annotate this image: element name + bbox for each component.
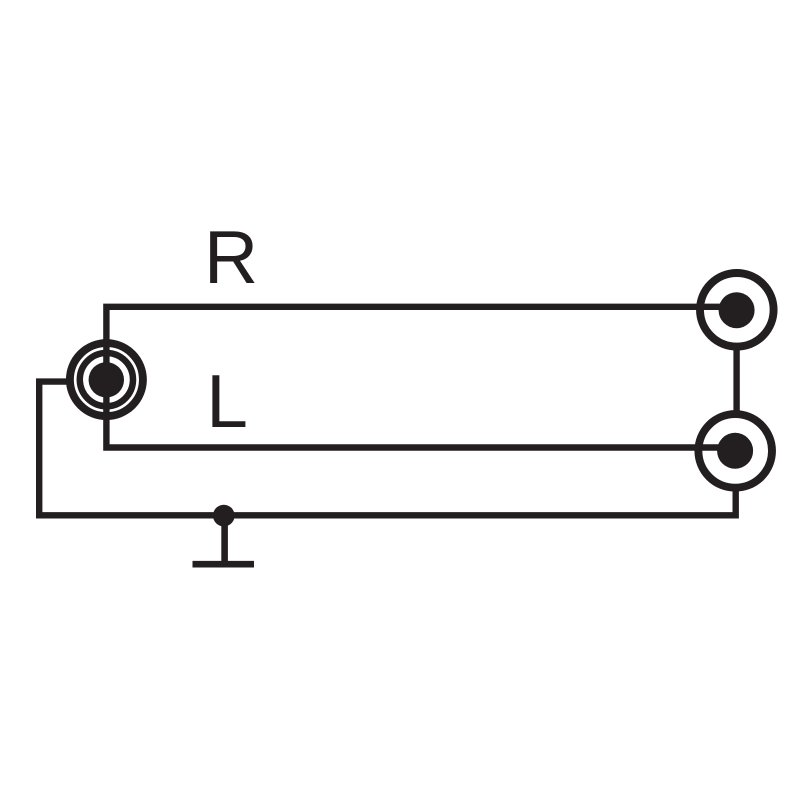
svg-text:R: R <box>204 215 258 299</box>
junction node on ground wire <box>213 505 235 527</box>
svg-text:L: L <box>206 359 248 443</box>
jack plug J1 ring contact <box>80 353 133 406</box>
wire R (right channel): top horizontal run with left corner down the jack stem and L horizontal run <box>106 307 736 448</box>
jack plug J1 (3.5mm stereo jack) outer sleeve ring <box>70 343 143 416</box>
ground bar symbol <box>193 561 255 568</box>
RCA plug R center pin <box>719 292 755 328</box>
ground stub wire <box>221 515 228 564</box>
RCA plug L center pin <box>717 433 753 469</box>
wire ground: from jack sleeve left, down the left side, across the bottom, up into bottom RCA <box>39 382 736 516</box>
wire link between RCA plugs <box>733 348 739 413</box>
jack plug J1 tip contact <box>89 362 124 397</box>
RCA plug L outer ring <box>698 414 772 488</box>
RCA plug R outer ring <box>700 273 774 347</box>
